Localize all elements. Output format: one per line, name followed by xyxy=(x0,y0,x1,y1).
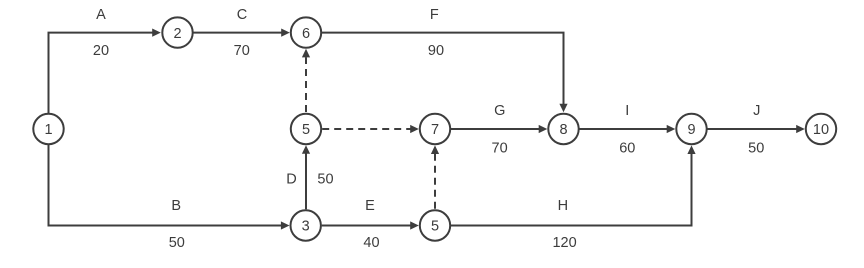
arrowhead into node9 (from H) xyxy=(687,145,695,154)
node 10 xyxy=(806,114,836,144)
svg-text:5: 5 xyxy=(431,219,439,235)
wire H: node5b right then up to node9 xyxy=(451,154,692,226)
svg-text:5: 5 xyxy=(302,122,310,138)
arrowhead into node3 (from B) xyxy=(281,221,290,229)
arrowhead into node7 (dummy from node5mid) xyxy=(410,125,419,133)
wire A: node1 up then right to node2 xyxy=(49,33,153,113)
svg-text:20: 20 xyxy=(93,43,109,59)
svg-text:C: C xyxy=(237,7,247,23)
arrowhead into node8 (from G) xyxy=(539,125,548,133)
svg-text:F: F xyxy=(430,7,439,23)
wire F: node6 right then down to node8 xyxy=(322,33,564,104)
node 5 (bottom) xyxy=(420,210,450,240)
svg-text:E: E xyxy=(365,198,375,214)
svg-text:9: 9 xyxy=(687,122,695,138)
wire I: node8 to node9 xyxy=(580,128,668,130)
svg-text:70: 70 xyxy=(234,43,250,59)
wire G: node7 to node8 xyxy=(451,128,539,130)
wire D: node3 up to node5mid xyxy=(305,154,307,210)
svg-text:40: 40 xyxy=(363,235,379,251)
arrowhead into node7 (dummy from node5b) xyxy=(431,145,439,154)
svg-text:60: 60 xyxy=(619,140,635,156)
node 7 xyxy=(420,114,450,144)
node 3 xyxy=(291,210,321,240)
wire E: node3 to node5b xyxy=(322,225,411,227)
arrowhead into node6 (from C) xyxy=(281,29,290,37)
svg-text:1: 1 xyxy=(44,122,52,138)
svg-text:10: 10 xyxy=(813,122,829,138)
svg-text:H: H xyxy=(558,198,568,214)
wire B: node1 down then right to node3 xyxy=(49,145,282,226)
svg-text:G: G xyxy=(494,103,505,119)
svg-text:2: 2 xyxy=(173,26,181,42)
wire C: node2 to node6 xyxy=(193,32,282,34)
node 5 (middle) xyxy=(291,114,321,144)
dashed dummy: node5mid right to node7 xyxy=(322,128,410,130)
svg-text:70: 70 xyxy=(492,140,508,156)
wire J: node9 to node10 xyxy=(708,128,797,130)
svg-text:7: 7 xyxy=(431,122,439,138)
svg-text:3: 3 xyxy=(302,219,310,235)
node 8 xyxy=(548,114,578,144)
svg-text:90: 90 xyxy=(428,43,444,59)
arrowhead into node5b (from E) xyxy=(410,221,419,229)
svg-text:6: 6 xyxy=(302,26,310,42)
svg-text:8: 8 xyxy=(559,122,567,138)
arrowhead into node6 (dummy from node5mid) xyxy=(302,49,310,58)
arrowhead into node5mid (from D) xyxy=(302,145,310,154)
dashed dummy: node5mid up to node6 xyxy=(305,57,307,112)
svg-text:A: A xyxy=(96,7,106,23)
svg-text:B: B xyxy=(171,198,181,214)
node 9 xyxy=(676,114,706,144)
node 1 xyxy=(33,114,63,144)
svg-text:J: J xyxy=(753,103,760,119)
svg-text:120: 120 xyxy=(552,235,576,251)
dashed dummy: node5b up to node7 xyxy=(434,154,436,209)
arrowhead into node8 (from F) xyxy=(559,104,567,113)
arrowhead into node10 (from J) xyxy=(796,125,805,133)
arrowhead into node2 xyxy=(152,29,161,37)
arrowhead into node9 (from I) xyxy=(667,125,676,133)
svg-text:50: 50 xyxy=(169,235,185,251)
svg-text:D: D xyxy=(286,172,296,188)
node 6 xyxy=(291,17,321,47)
node 2 xyxy=(162,17,192,47)
svg-text:50: 50 xyxy=(317,172,333,188)
svg-text:50: 50 xyxy=(748,140,764,156)
svg-text:I: I xyxy=(625,103,629,119)
